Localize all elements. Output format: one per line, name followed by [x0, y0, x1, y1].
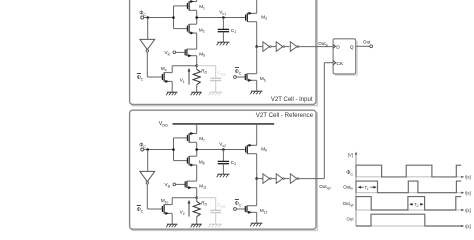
- svg-text:C: C: [143, 13, 146, 17]
- svg-text:Q: Q: [350, 45, 354, 51]
- svg-text:CK: CK: [336, 61, 344, 67]
- svg-text:C: C: [239, 204, 242, 208]
- svg-text:V2T Cell - Input: V2T Cell - Input: [271, 97, 313, 103]
- svg-text:t[s]: t[s]: [465, 191, 471, 196]
- svg-text:V2T Cell - Reference: V2T Cell - Reference: [256, 112, 314, 119]
- svg-text:C: C: [141, 78, 144, 82]
- svg-text:Out: Out: [347, 217, 355, 222]
- svg-text:D: D: [336, 45, 340, 51]
- svg-text:t[s]: t[s]: [465, 175, 471, 180]
- svg-text:C: C: [143, 145, 146, 149]
- svg-text:C: C: [350, 173, 353, 177]
- svg-text:C: C: [239, 72, 242, 76]
- svg-text:Out: Out: [363, 40, 371, 45]
- svg-text:C: C: [141, 210, 144, 214]
- svg-text:[V]: [V]: [348, 152, 353, 157]
- svg-text:t[s]: t[s]: [465, 208, 471, 213]
- svg-text:t[s]: t[s]: [465, 224, 471, 229]
